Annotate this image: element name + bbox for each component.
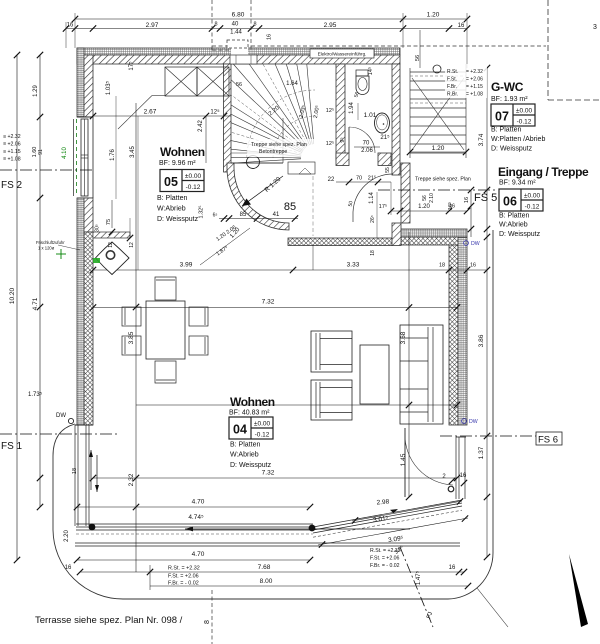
svg-text:-0.12: -0.12 <box>186 184 201 191</box>
svg-text:BF: 40.83 m²: BF: 40.83 m² <box>229 410 270 417</box>
svg-text:= +2.06: = +2.06 <box>466 77 483 83</box>
svg-text:4.70: 4.70 <box>192 551 205 558</box>
svg-text:B: Platten: B: Platten <box>491 127 521 134</box>
svg-text:18: 18 <box>72 468 78 474</box>
svg-text:Wohnen: Wohnen <box>160 145 205 159</box>
svg-text:1.03⁵: 1.03⁵ <box>105 80 112 95</box>
svg-text:40: 40 <box>232 22 239 28</box>
svg-text:04: 04 <box>233 423 247 437</box>
svg-text:16: 16 <box>460 473 467 479</box>
svg-text:Frischluftzufuhr: Frischluftzufuhr <box>36 240 65 245</box>
svg-text:12⁵: 12⁵ <box>210 109 220 116</box>
svg-text:85: 85 <box>284 201 296 213</box>
svg-text:70: 70 <box>363 141 370 147</box>
svg-text:41: 41 <box>273 212 280 218</box>
svg-text:1.45: 1.45 <box>400 453 407 466</box>
svg-text:DW: DW <box>56 413 66 419</box>
svg-text:D: Weissputz: D: Weissputz <box>230 462 272 469</box>
svg-text:F.Br. = - 0.02: F.Br. = - 0.02 <box>168 581 199 587</box>
svg-text:Terrasse siehe spez. Plan Nr.: Terrasse siehe spez. Plan Nr. 098 / <box>35 615 183 626</box>
svg-text:≡ +2.06: ≡ +2.06 <box>3 142 21 148</box>
svg-text:Treppe siehe spez. Plan: Treppe siehe spez. Plan <box>415 177 471 183</box>
svg-text:FS 6: FS 6 <box>538 435 558 446</box>
svg-text:16: 16 <box>458 23 465 29</box>
svg-text:12⁵: 12⁵ <box>326 140 334 147</box>
svg-text:17⁵: 17⁵ <box>379 203 387 210</box>
svg-text:12: 12 <box>129 242 135 248</box>
svg-text:07: 07 <box>495 110 509 124</box>
svg-text:1 x 120ø: 1 x 120ø <box>38 246 55 251</box>
svg-text:2.42: 2.42 <box>198 120 204 132</box>
svg-text:05: 05 <box>164 175 178 189</box>
svg-text:Wohnen: Wohnen <box>230 395 275 409</box>
svg-text:16: 16 <box>65 565 72 571</box>
svg-text:1.37: 1.37 <box>478 446 485 459</box>
svg-text:R.Br.: R.Br. <box>447 92 458 98</box>
svg-text:16: 16 <box>267 34 273 40</box>
svg-text:FS 5: FS 5 <box>474 192 497 204</box>
svg-text:8: 8 <box>214 22 217 28</box>
svg-text:= +2.32: = +2.32 <box>466 69 483 75</box>
svg-text:3.85: 3.85 <box>128 331 135 344</box>
svg-text:2.20: 2.20 <box>64 530 70 542</box>
svg-text:DW: DW <box>469 419 478 425</box>
svg-text:56: 56 <box>422 195 428 201</box>
svg-text:±0.00: ±0.00 <box>516 108 533 115</box>
svg-text:9⁵: 9⁵ <box>339 137 346 142</box>
svg-text:≡ +1.08: ≡ +1.08 <box>3 157 21 163</box>
svg-text:1.44: 1.44 <box>230 30 242 36</box>
svg-text:D: Weissputz: D: Weissputz <box>157 216 199 223</box>
svg-text:8.00: 8.00 <box>260 578 273 585</box>
svg-text:06: 06 <box>503 195 517 209</box>
svg-text:26⁵: 26⁵ <box>370 215 376 223</box>
svg-text:3: 3 <box>593 24 597 31</box>
svg-text:R.St. = +2.32: R.St. = +2.32 <box>370 548 401 554</box>
svg-text:16: 16 <box>464 197 470 203</box>
svg-text:DW: DW <box>471 241 480 247</box>
svg-text:18: 18 <box>370 250 376 256</box>
svg-text:3.86: 3.86 <box>478 334 485 347</box>
svg-text:= +1.08: = +1.08 <box>466 92 483 98</box>
svg-text:Treppe siehe spez. Plan: Treppe siehe spez. Plan <box>251 142 307 148</box>
svg-text:16: 16 <box>67 23 74 29</box>
svg-text:21⁵: 21⁵ <box>380 134 390 141</box>
svg-text:21⁵: 21⁵ <box>368 175 376 182</box>
svg-text:2.97: 2.97 <box>146 22 159 29</box>
svg-text:W:Abrieb: W:Abrieb <box>230 452 259 459</box>
svg-text:F.Br.: F.Br. <box>447 84 457 90</box>
svg-text:6.80: 6.80 <box>232 12 245 19</box>
svg-text:B: Platten: B: Platten <box>230 442 260 449</box>
svg-text:-0.12: -0.12 <box>517 119 532 126</box>
svg-text:D: Weissputz: D: Weissputz <box>491 146 533 153</box>
svg-text:±0.00: ±0.00 <box>524 193 541 200</box>
svg-text:W:Abrieb: W:Abrieb <box>157 206 186 213</box>
svg-text:-0.12: -0.12 <box>525 204 540 211</box>
svg-text:1.29: 1.29 <box>33 85 39 97</box>
svg-text:16: 16 <box>449 565 456 571</box>
svg-text:B: Platten: B: Platten <box>157 195 187 202</box>
svg-text:16⁵: 16⁵ <box>447 202 454 210</box>
svg-text:10.20: 10.20 <box>9 287 16 304</box>
svg-text:70: 70 <box>356 176 362 182</box>
svg-text:22: 22 <box>328 177 335 183</box>
svg-text:1.64: 1.64 <box>286 81 298 87</box>
svg-text:1.32⁵: 1.32⁵ <box>198 206 205 219</box>
svg-text:75: 75 <box>106 219 112 225</box>
svg-text:4.71: 4.71 <box>32 297 39 310</box>
svg-text:2.98: 2.98 <box>376 498 390 506</box>
svg-text:≡ +1.15: ≡ +1.15 <box>3 149 21 155</box>
svg-text:W:Platten /Abrieb: W:Platten /Abrieb <box>491 136 545 143</box>
svg-text:F.St. = +2.06: F.St. = +2.06 <box>370 556 400 562</box>
svg-text:BF: 1.93 m²: BF: 1.93 m² <box>491 96 528 103</box>
svg-text:18: 18 <box>439 263 445 269</box>
svg-text:8: 8 <box>253 22 256 28</box>
svg-text:Betontreppe: Betontreppe <box>259 149 287 155</box>
svg-text:1.47⁵: 1.47⁵ <box>415 570 422 585</box>
svg-text:W:Abrieb: W:Abrieb <box>499 222 528 229</box>
svg-text:4.70: 4.70 <box>192 499 205 506</box>
svg-text:2.67: 2.67 <box>144 109 157 116</box>
svg-text:16: 16 <box>470 263 476 269</box>
svg-text:= +1.15: = +1.15 <box>466 84 483 90</box>
svg-text:≡ +2.32: ≡ +2.32 <box>3 134 21 140</box>
svg-text:3.45: 3.45 <box>130 146 136 158</box>
svg-text:R.St.: R.St. <box>447 69 458 75</box>
svg-text:1.20: 1.20 <box>427 12 440 19</box>
svg-text:7.32: 7.32 <box>262 299 275 306</box>
svg-text:-0.12: -0.12 <box>255 432 270 439</box>
svg-text:1.94: 1.94 <box>349 102 355 114</box>
svg-text:7.68: 7.68 <box>258 564 271 571</box>
svg-text:BF: 9.96 m²: BF: 9.96 m² <box>159 160 196 167</box>
svg-text:14⁵: 14⁵ <box>367 67 374 75</box>
svg-text:B: Platten: B: Platten <box>499 213 529 220</box>
svg-text:F.St. = +2.06: F.St. = +2.06 <box>168 574 199 580</box>
svg-text:4.10: 4.10 <box>62 147 68 159</box>
svg-text:FS 1: FS 1 <box>1 441 23 452</box>
svg-text:2.10: 2.10 <box>429 193 435 203</box>
svg-text:2.95: 2.95 <box>324 22 337 29</box>
svg-text:BF: 9.34 m²: BF: 9.34 m² <box>499 180 536 187</box>
svg-text:56: 56 <box>236 82 242 88</box>
svg-text:85: 85 <box>240 212 247 218</box>
svg-text:F.St.: F.St. <box>447 77 457 83</box>
svg-text:±0.00: ±0.00 <box>185 173 202 180</box>
svg-text:D: Weissputz: D: Weissputz <box>499 231 541 238</box>
svg-text:91: 91 <box>38 149 44 155</box>
svg-text:12⁵: 12⁵ <box>326 107 334 114</box>
svg-text:1.76: 1.76 <box>110 149 116 161</box>
svg-text:R.St. = +2.32: R.St. = +2.32 <box>168 566 200 572</box>
svg-text:FS 2: FS 2 <box>1 180 23 191</box>
svg-text:1.20: 1.20 <box>418 204 430 210</box>
svg-text:3.33: 3.33 <box>347 262 360 269</box>
svg-text:3.74: 3.74 <box>478 133 485 146</box>
svg-text:G-WC: G-WC <box>491 80 524 94</box>
svg-text:6⁵: 6⁵ <box>213 213 218 219</box>
svg-text:8: 8 <box>204 620 211 624</box>
svg-text:55: 55 <box>385 167 391 173</box>
svg-text:4.74⁵: 4.74⁵ <box>188 514 204 521</box>
svg-text:1.14: 1.14 <box>369 192 375 204</box>
svg-text:3.99: 3.99 <box>180 262 193 269</box>
svg-text:Eingang / Treppe: Eingang / Treppe <box>498 165 589 179</box>
svg-text:2.06: 2.06 <box>361 148 373 154</box>
svg-text:F.Br. = - 0.02: F.Br. = - 0.02 <box>370 563 400 569</box>
svg-text:7.32: 7.32 <box>262 470 275 477</box>
svg-text:30⁵: 30⁵ <box>95 224 101 232</box>
svg-text:1.01: 1.01 <box>364 112 377 119</box>
svg-text:1.20: 1.20 <box>432 145 445 152</box>
svg-text:1.73⁵: 1.73⁵ <box>28 391 43 398</box>
svg-text:Elektro/Wassereinführg.: Elektro/Wassereinführg. <box>318 52 367 57</box>
svg-text:12: 12 <box>108 242 114 248</box>
svg-text:17⁵: 17⁵ <box>128 61 135 71</box>
svg-text:±0.00: ±0.00 <box>254 421 271 428</box>
